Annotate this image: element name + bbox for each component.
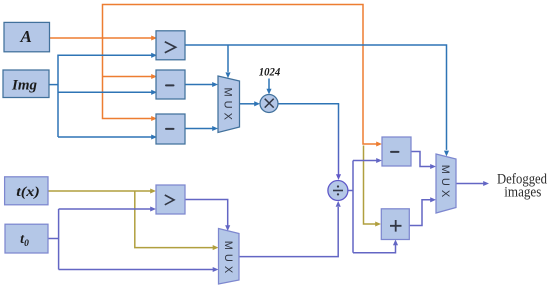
divider circle DIV1 [328, 181, 348, 201]
svg-text:Img: Img [11, 78, 38, 94]
wire: SUB2 output to MUX1 input 2 [185, 128, 213, 130]
wire: orange branch down to SUB1 and SUB2 inputs [103, 38, 152, 119]
input box t0 [5, 224, 48, 253]
input box A [4, 22, 50, 51]
svg-text:MUX: MUX [439, 165, 451, 201]
wire: purple net t0 to GT2 input 2 and MUX2 input 2 [48, 209, 213, 270]
wire: olive branch into adder input 1 [364, 146, 376, 225]
svg-text:t(x): t(x) [16, 185, 40, 200]
svg-text:MUX: MUX [222, 241, 234, 277]
wire: GT1 output to MUX3 select [185, 45, 447, 150]
adder box ADD1 [381, 209, 409, 240]
wire: SUB1 output to MUX1 input 1 [185, 84, 213, 86]
wire: MUX2 output up into divider bottom [239, 207, 338, 257]
subtractor box SUB1 [156, 70, 185, 99]
wire: multiplier output down into divider top [278, 104, 339, 175]
wire: blue net from Img to GT1, SUB1, SUB2 [49, 55, 152, 137]
multiplexer MUX3 [436, 154, 456, 213]
svg-text:1024: 1024 [259, 64, 281, 78]
multiplexer MUX1 [218, 76, 240, 133]
wire: GT2 output to MUX2 select [185, 200, 228, 226]
comparator box GT1 [156, 31, 185, 60]
wire: 1024 constant arrow into multiplier [268, 79, 270, 90]
subtractor box SUB3 [382, 137, 411, 166]
multiplexer MUX2 [219, 229, 240, 285]
comparator box GT2 [156, 185, 185, 214]
wire: orange net from A to GT1 input [50, 37, 152, 39]
subtractor box SUB2 [156, 114, 185, 144]
input box t(x) [5, 177, 48, 205]
wire: adder output to MUX3 input 2 [409, 200, 430, 226]
wire: olive branch down to MUX2 input 1 [135, 191, 213, 248]
wire: MUX3 output to Defogged images [456, 183, 484, 185]
wire: orange branch up over top rail down into SUB3 [103, 5, 377, 145]
svg-text:images: images [504, 185, 541, 201]
svg-text:A: A [20, 27, 32, 46]
wire: SUB3 output to MUX3 input 1 [411, 152, 431, 167]
wire: GT1 output branch down to MUX1 select [227, 45, 229, 72]
wire: MUX1 output to multiplier [240, 103, 255, 105]
input box Img [3, 70, 49, 98]
multiplier circle X1 [260, 95, 278, 113]
svg-text:MUX: MUX [222, 87, 234, 123]
wire: divider output splitting to SUB3 and adder [348, 161, 396, 253]
output label Defogged images [497, 172, 548, 201]
wire: olive net t(x) to GT2 input 1 [48, 190, 152, 192]
